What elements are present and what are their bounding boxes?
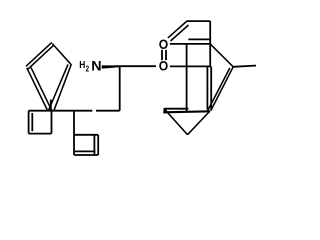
left square right edge bbox=[51, 111, 53, 134]
middle square left edge bbox=[73, 135, 75, 155]
horizontal line B bbox=[163, 111, 210, 112]
ring edge L-B line1 bbox=[27, 68, 48, 111]
svg-text:N: N bbox=[91, 58, 101, 74]
left square inner double line bbox=[31, 113, 33, 131]
cyclopentadiene ring edge T-L line1 bbox=[26, 42, 52, 66]
left square left edge bbox=[28, 111, 30, 134]
C1 to ester O bond bbox=[115, 65, 156, 67]
vertical bond to middle square bbox=[73, 111, 75, 135]
ring edge B-R line2 bbox=[54, 64, 71, 110]
svg-text:2: 2 bbox=[86, 66, 90, 74]
svg-text:H: H bbox=[79, 59, 85, 71]
E to F diagonal bbox=[210, 44, 233, 67]
middle long vertical bbox=[186, 44, 188, 112]
middle square right inner line bbox=[93, 135, 95, 155]
upper O to right vertical horizontal bbox=[170, 43, 210, 45]
junction blob at left end of lines A/B bbox=[164, 108, 167, 113]
middle square right outer edge bbox=[97, 135, 99, 155]
stem from ring apex to spiro carbon bbox=[50, 100, 52, 111]
top horizontal edge bbox=[186, 20, 210, 22]
O=O double bond line a bbox=[161, 50, 163, 60]
cyclopentadiene ring edge T-L line2 bbox=[27, 46, 53, 70]
F to H double bond inner bbox=[208, 68, 230, 111]
right vertical upper part bbox=[209, 21, 211, 66]
wedge to C1 thin bond bbox=[115, 65, 120, 67]
F to H double bond main bbox=[211, 67, 233, 111]
O=O double bond line b bbox=[165, 50, 167, 60]
horizontal line A bbox=[164, 108, 188, 110]
triangle left arm bbox=[164, 109, 187, 135]
inner horizontal above bbox=[188, 38, 209, 40]
middle square bottom outer edge bbox=[74, 154, 98, 156]
amine wedge bond bbox=[102, 65, 115, 68]
upper O diagonal double inner bbox=[171, 25, 189, 41]
long horizontal bond right segment bbox=[96, 110, 120, 112]
triangle right arm bbox=[188, 111, 211, 135]
C1 vertical bond down bbox=[119, 66, 121, 111]
V_d to H double bond right line bbox=[210, 66, 212, 110]
svg-text:O: O bbox=[159, 58, 168, 74]
middle square bottom inner line bbox=[75, 150, 95, 152]
V_d to H double bond left line bbox=[206, 66, 208, 109]
svg-text:O: O bbox=[159, 36, 168, 52]
middle square top edge bbox=[74, 134, 98, 136]
long horizontal bond left segment bbox=[29, 110, 93, 112]
left square bottom edge bbox=[29, 133, 52, 135]
ring edge B-R line1 bbox=[49, 64, 69, 110]
ring edge T-R single bbox=[52, 44, 71, 65]
F methyl stub bbox=[233, 66, 256, 67]
lower O right bond bbox=[170, 65, 211, 67]
upper O diagonal double outer bbox=[168, 22, 187, 38]
ring edge L-B line2 bbox=[31, 68, 52, 111]
